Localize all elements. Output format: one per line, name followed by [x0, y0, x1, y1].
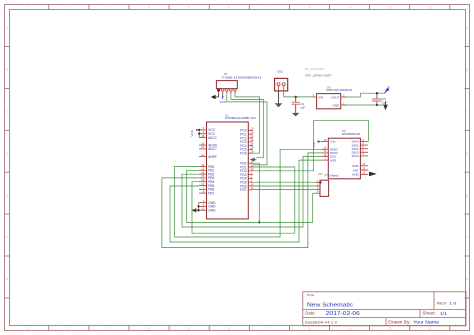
U1 pin 18 AVCC — [199, 134, 218, 140]
U1 pin 17 PB5 — [199, 182, 215, 188]
U1 pin 3 GND — [199, 199, 216, 205]
svg-text:GND: GND — [333, 104, 341, 108]
U1 pin 12 PB0 — [199, 163, 215, 169]
svg-text:24: 24 — [251, 131, 254, 135]
svg-text:25: 25 — [251, 134, 254, 138]
U1 pin 28 PC5 — [240, 146, 254, 152]
capacitor C4 — [292, 97, 300, 113]
svg-text:12: 12 — [201, 163, 204, 167]
U1 pin 15 PB3 — [199, 174, 215, 180]
wire U1 PB2 to U2 SCK — [182, 157, 321, 228]
svg-text:27: 27 — [251, 142, 254, 146]
svg-text:B: B — [6, 68, 8, 72]
svg-text:MCP1700T-3002E/CB: MCP1700T-3002E/CB — [326, 88, 352, 92]
svg-text:NSS: NSS — [330, 158, 336, 162]
capacitor C5 — [372, 93, 382, 105]
ground flag below C4 — [292, 113, 300, 117]
wire U1 GND pins bus — [198, 203, 200, 211]
ground flag at P1 pin1 — [211, 94, 219, 99]
VCC net flag at U2 3.3v pin — [312, 140, 321, 148]
U2 pin 12 SCK — [321, 153, 336, 159]
wire P1 pin3 to U1 PD0 row — [227, 94, 267, 165]
net flag blob right of U1 — [250, 158, 257, 162]
svg-text:TITLE:: TITLE: — [307, 293, 316, 297]
U2 pin 11 MOSI — [321, 149, 338, 155]
svg-text:B: B — [466, 68, 468, 72]
U1 pin 4 VCC — [199, 126, 216, 132]
svg-text:F185-1105A0BS0HJ: F185-1105A0BS0HJ — [222, 76, 262, 80]
wire U1 PD2 to U2 DIO0 over the top — [253, 121, 369, 171]
wire U1 PD1 to right bus — [253, 167, 295, 233]
junction U1 VCC pin4 — [198, 129, 200, 131]
svg-text:E: E — [466, 193, 468, 197]
svg-text:ATMEGA328P-AU: ATMEGA328P-AU — [225, 116, 257, 120]
svg-text:18: 18 — [201, 134, 204, 138]
J1 pin1 junction dot — [319, 181, 321, 183]
regulator U3 body — [317, 94, 341, 109]
svg-text:2017-02-06: 2017-02-06 — [326, 311, 360, 317]
wire U1 PD6 to J1 pin2 — [253, 185, 316, 187]
U1 pin 10 PD6 — [240, 182, 254, 188]
svg-text:15: 15 — [201, 174, 204, 178]
svg-text:EasyEDA V4.1.3: EasyEDA V4.1.3 — [305, 320, 337, 325]
U1 pin 7 PB6 — [199, 186, 215, 192]
svg-text:Sheet:: Sheet: — [422, 311, 436, 316]
VCC net flag at P1 pin2 — [220, 94, 227, 104]
svg-text:J0?_2PIN-SMT: J0?_2PIN-SMT — [305, 73, 332, 77]
U1 pin 9 PD5 — [240, 179, 253, 185]
svg-text:RFM69CW: RFM69CW — [342, 132, 360, 136]
svg-text:FTDI-Basic: FTDI-Basic — [325, 173, 340, 177]
U3 pin 2 VOUT — [331, 93, 347, 99]
U1 pin 19 ADC6 — [199, 141, 217, 147]
svg-text:ADC7: ADC7 — [208, 147, 217, 151]
U1 pin 13 PB1 — [199, 167, 215, 173]
wire VCC flag to U1 VCC/AVCC pins — [198, 130, 200, 138]
U3 pin 3 VIN — [312, 93, 324, 99]
svg-text:AVCC: AVCC — [208, 136, 217, 140]
U1 pin 23 PC0 — [240, 127, 254, 133]
CN1 pin 2 — [282, 83, 285, 91]
svg-text:A: A — [466, 26, 468, 30]
wire U1 PB5 to U2 NSS — [170, 160, 321, 242]
U1 pin 1 PD3 — [240, 171, 253, 177]
U1 pin 2 PD4 — [240, 175, 253, 181]
U1 pin 11 PD7 — [240, 186, 254, 192]
P1 pin 4 — [230, 89, 233, 94]
svg-text:New Schematic: New Schematic — [307, 302, 353, 308]
svg-text:Drawn By:: Drawn By: — [388, 320, 411, 325]
svg-text:CN1: CN1 — [277, 69, 283, 73]
U1 pin 25 PC2 — [240, 134, 254, 140]
VCC net flag at U1 power pins — [190, 129, 199, 137]
wire P1 pin5 to U1 PC6 — [235, 94, 260, 153]
svg-text:1uF: 1uF — [300, 105, 305, 109]
ground flag below CN1 pin1 — [275, 91, 283, 108]
title block frame — [303, 292, 466, 326]
wire CN1 pin2 to VIN rail — [284, 91, 312, 97]
svg-text:28: 28 — [251, 146, 254, 150]
U1 pin 30 PD0 — [240, 160, 254, 166]
U1 pin 26 PC3 — [240, 138, 254, 144]
svg-text:10: 10 — [388, 327, 392, 331]
U2 pin 6 DIO2 — [352, 145, 368, 151]
svg-text:GND: GND — [208, 208, 216, 212]
P1 pin 3 — [226, 89, 229, 94]
antenna ground flag at U2 ANT/GND — [369, 172, 377, 177]
junction U1 GND pin21 — [197, 209, 199, 211]
svg-text:A: A — [6, 26, 8, 30]
svg-text:PD7: PD7 — [240, 188, 247, 192]
U2 pin 10 MISO — [321, 146, 339, 152]
mcu U1 body — [207, 122, 249, 219]
svg-text:REV: REV — [437, 301, 447, 306]
P1 pin 2 — [221, 89, 224, 94]
wire U1 PB4 to U1 PD1 bottom bus — [192, 182, 295, 234]
svg-text:16: 16 — [201, 178, 204, 182]
P1 pin1 junction dot — [217, 89, 220, 92]
U2 pin 5 DIO3 — [352, 149, 368, 155]
svg-text:1uF: 1uF — [382, 101, 387, 105]
junction U1 GND pin5 — [197, 205, 199, 207]
U1 pin 5 GND — [199, 203, 216, 209]
U1 pin 21 GND — [199, 207, 216, 213]
U2 pin 8 DIO1 — [352, 141, 368, 147]
U2 pin 9 DIO0 — [352, 138, 368, 144]
U1 pin 29 PC6 — [240, 150, 254, 156]
U1 pin 27 PC4 — [240, 142, 254, 148]
svg-text:J0?_2PIN-SMT: J0?_2PIN-SMT — [304, 67, 325, 71]
svg-text:PB7: PB7 — [208, 191, 214, 195]
svg-text:ANT: ANT — [353, 168, 359, 172]
wire P1 pin4 to RST net flag — [231, 94, 263, 158]
U2 pin 16 GND — [352, 171, 368, 177]
U2 pin 15 ANT — [353, 166, 369, 172]
wire U1 PD0 down to bottom bus — [253, 163, 259, 222]
connector CN1 body — [275, 78, 288, 91]
J1 pin 4 — [316, 191, 321, 194]
svg-text:3.3v: 3.3v — [330, 140, 336, 144]
svg-text:VIN: VIN — [318, 96, 323, 100]
J1 pin 3 — [316, 187, 321, 190]
CN1 pin 1 — [277, 83, 280, 91]
svg-text:GND: GND — [352, 164, 360, 168]
svg-text:14: 14 — [201, 170, 204, 174]
svg-text:PC6: PC6 — [240, 151, 247, 155]
U1 pin 16 PB4 — [199, 178, 215, 184]
U2 pin 13 3.3v — [321, 138, 336, 144]
U1 pin 20 AREF — [199, 153, 217, 159]
wire U3 GND to ground flag — [347, 104, 385, 106]
wire U1 PB1 to J1 pin4 — [187, 170, 316, 222]
wire U1 PD5 to J1 pin1 — [253, 181, 316, 183]
ground flag at U3 GND rail — [383, 101, 388, 110]
svg-text:AREF: AREF — [208, 155, 217, 159]
svg-text:17: 17 — [201, 182, 204, 186]
U1 pin 6 VCC — [199, 130, 216, 136]
svg-text:19: 19 — [201, 141, 204, 145]
wire U1 PB3 to U2 MOSI — [162, 153, 321, 248]
wire U1 PB0 to U2 MISO — [175, 149, 321, 237]
svg-text:Your Name: Your Name — [413, 320, 440, 325]
svg-text:20: 20 — [201, 153, 204, 157]
svg-text:GND: GND — [352, 173, 360, 177]
svg-text:22: 22 — [201, 145, 204, 149]
J1 pin 1 — [316, 180, 321, 183]
svg-text:1/1: 1/1 — [440, 311, 448, 316]
U1 pin 8 PB7 — [199, 189, 215, 195]
rf module U2 body — [328, 138, 360, 179]
U1 pin 22 ADC7 — [199, 145, 217, 151]
svg-text:VOUT: VOUT — [331, 96, 340, 100]
U1 pin 31 PD1 — [240, 163, 254, 169]
svg-text:DIO4: DIO4 — [352, 154, 359, 158]
U1 pin 24 PC1 — [240, 131, 254, 137]
svg-text:F: F — [6, 235, 8, 239]
svg-text:21: 21 — [201, 207, 204, 211]
junction GND rail at C5 bottom — [376, 104, 378, 106]
junction PD0 bottom bus — [258, 221, 260, 223]
svg-text:J1?: J1? — [318, 172, 323, 176]
wire U1 PD7 to J1 pin3 — [253, 189, 316, 191]
wire U3 VOUT to VCC flag — [347, 93, 385, 97]
P1 pin 1 — [217, 89, 220, 94]
svg-text:11: 11 — [428, 6, 431, 10]
U3 pin 1 GND — [333, 101, 347, 107]
U1 pin 32 PD2 — [240, 167, 254, 173]
connector P1 body — [216, 81, 237, 89]
svg-text:F: F — [466, 235, 468, 239]
svg-text:VCC: VCC — [190, 129, 194, 136]
svg-text:Date:: Date: — [305, 311, 315, 316]
P1 pin 5 — [234, 89, 237, 94]
svg-text:VCC: VCC — [220, 100, 227, 104]
svg-text:11: 11 — [428, 327, 431, 331]
connector J1 body — [320, 180, 329, 196]
junction VIN rail at C4 — [295, 96, 297, 98]
J1 pin 2 — [316, 183, 321, 186]
U2 pin 14 GND — [352, 162, 368, 168]
svg-text:10: 10 — [388, 6, 392, 10]
junction VOUT rail at C5 top — [376, 92, 378, 94]
U1 pin 14 PB2 — [199, 170, 215, 176]
svg-text:13: 13 — [201, 167, 204, 171]
svg-text:26: 26 — [251, 138, 254, 142]
svg-text:23: 23 — [251, 127, 254, 131]
U2 pin 7 NSS — [321, 156, 336, 162]
svg-text:1.0: 1.0 — [449, 301, 457, 306]
ground flag at U1 GND pins — [191, 208, 198, 212]
U2 pin 4 DIO4 — [352, 152, 368, 158]
VCC net flag at U3 output — [384, 85, 392, 94]
svg-text:E: E — [6, 193, 8, 197]
junction U1 VCC pin6 — [198, 133, 200, 135]
